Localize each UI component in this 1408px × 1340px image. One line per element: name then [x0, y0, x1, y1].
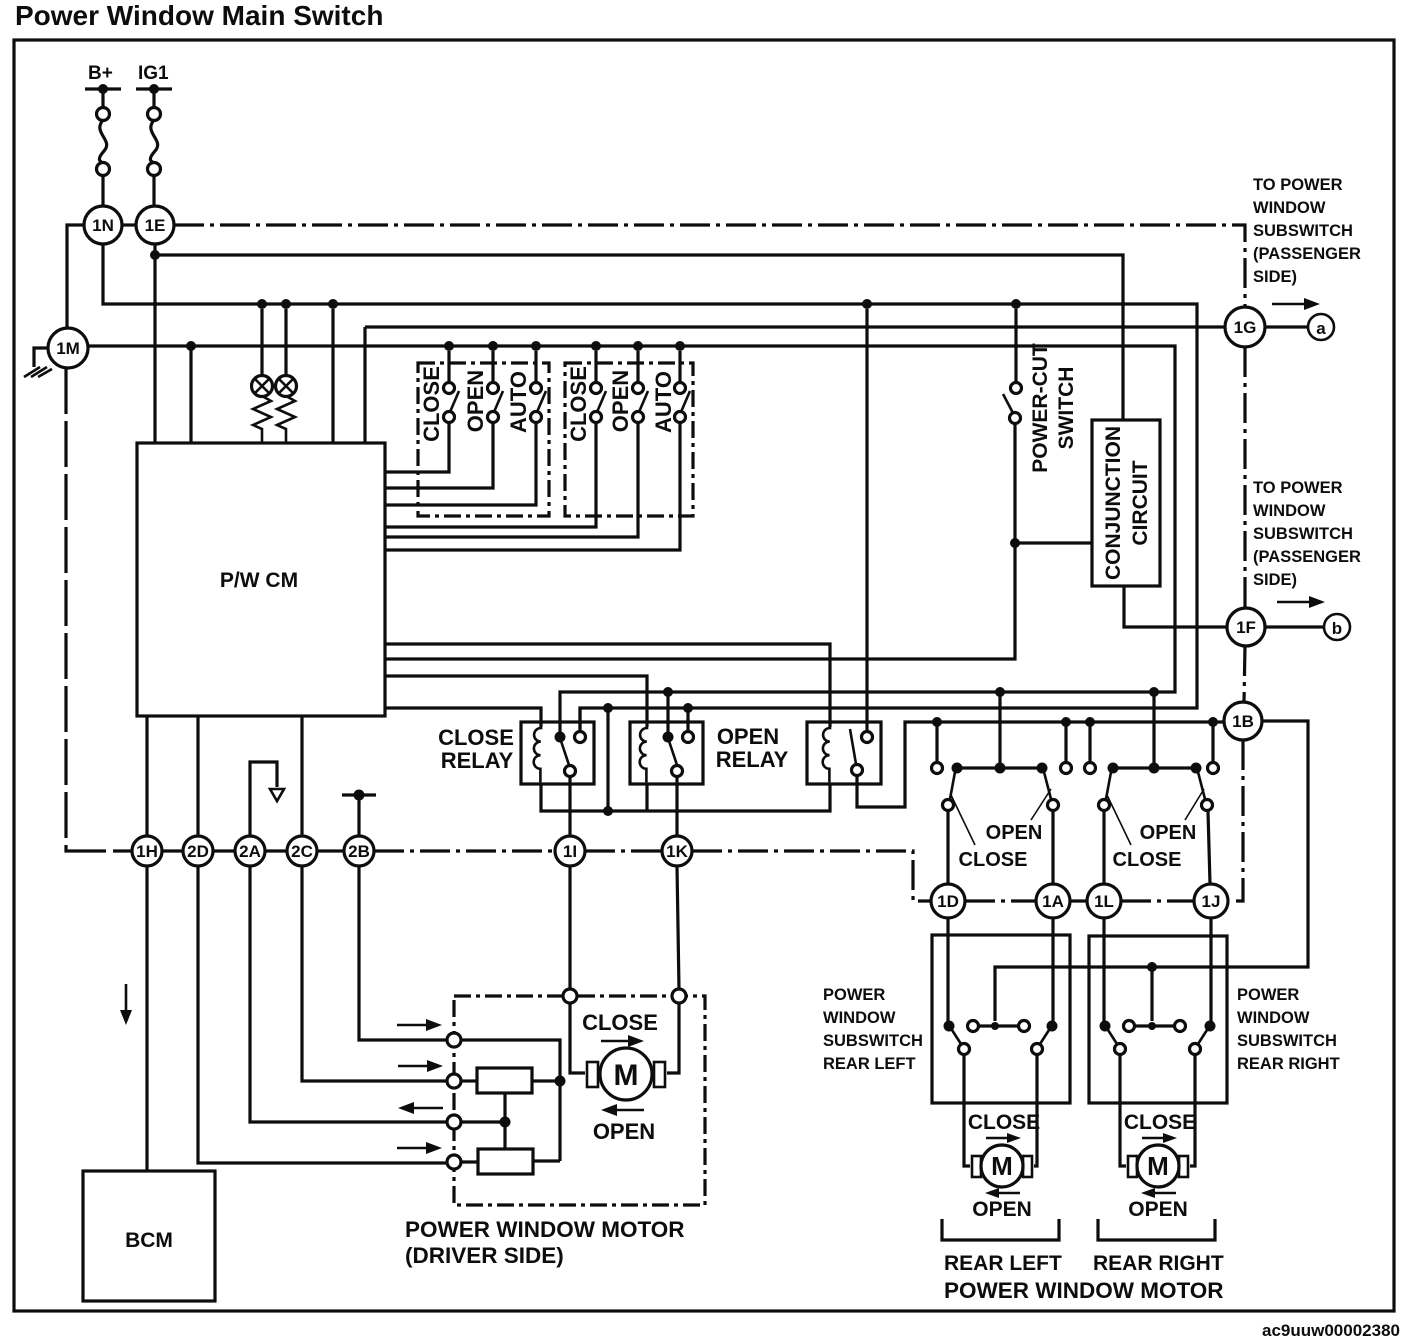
svg-text:1F: 1F [1236, 618, 1256, 637]
arrow down beside 1H wire [120, 984, 132, 1025]
lamp L2 [276, 309, 297, 397]
label to power window subswitch (top) [1253, 176, 1361, 286]
svg-text:OPEN: OPEN [1128, 1198, 1188, 1221]
close relay common contact [555, 732, 566, 743]
wire power-cut relay output to 1B rail [857, 722, 1224, 807]
node dot tap [500, 1117, 511, 1128]
svg-text:SUBSWITCH: SUBSWITCH [1253, 222, 1353, 240]
wire close relay to 1I [568, 777, 571, 836]
svg-text:IG1: IG1 [138, 63, 169, 84]
svg-text:B+: B+ [88, 63, 113, 84]
node dots on power rail [257, 299, 267, 309]
wire 1I to 1K dash [585, 849, 662, 852]
motor M1 brackets [587, 1062, 598, 1087]
wire 1B right to rear feed [995, 721, 1308, 1021]
wire 1G to a [1265, 325, 1308, 328]
power-cut relay coil [823, 722, 830, 782]
close relay coil [534, 722, 541, 782]
wire 1B to 1J dash [1230, 740, 1243, 901]
rear right subswitch contacts [1100, 1021, 1216, 1055]
svg-text:SUBSWITCH: SUBSWITCH [823, 1032, 923, 1050]
power-cut relay box [807, 722, 881, 784]
wire NO contact feed [686, 708, 689, 731]
wire P/W CM to 2D [196, 716, 199, 836]
arrow above 2A [250, 762, 284, 836]
open relay coil [640, 722, 647, 782]
arrow close (rear left) [986, 1133, 1021, 1143]
svg-text:SIDE): SIDE) [1253, 268, 1297, 286]
arrow row2 [398, 1060, 443, 1072]
svg-text:AUTO: AUTO [651, 371, 676, 433]
connector 1K [662, 836, 692, 866]
wire row1 internal [461, 1040, 560, 1161]
close relay box [521, 722, 594, 784]
power-cut switch [1003, 309, 1078, 543]
power-cut relay lever [850, 729, 856, 764]
driver motor box [454, 996, 705, 1205]
svg-text:POWER WINDOW MOTOR: POWER WINDOW MOTOR [944, 1278, 1224, 1303]
svg-text:RELAY: RELAY [441, 748, 514, 773]
open relay output circle [672, 766, 683, 777]
wire 1D to 1A dash [965, 899, 1036, 902]
svg-text:2C: 2C [291, 842, 313, 861]
svg-text:SIDE): SIDE) [1253, 571, 1297, 589]
resistor R1 [253, 396, 271, 443]
connector 2C [287, 836, 317, 866]
svg-text:POWER: POWER [823, 986, 885, 1004]
wire 1K to motor box [677, 866, 679, 989]
svg-text:WINDOW: WINDOW [1253, 199, 1326, 217]
rear-left window switch (main) [932, 692, 1072, 884]
svg-text:CIRCUIT: CIRCUIT [1129, 460, 1152, 545]
svg-text:OPEN: OPEN [986, 822, 1043, 844]
wire 1H to BCM [145, 866, 148, 1171]
svg-text:ac9uuw00002380: ac9uuw00002380 [1262, 1321, 1400, 1340]
fuse F1 (B+) [97, 108, 110, 207]
bracket rear right [1098, 1219, 1215, 1240]
svg-text:1B: 1B [1232, 712, 1254, 731]
svg-text:1N: 1N [92, 216, 114, 235]
pin circle row3 [447, 1115, 461, 1129]
relay coil bus [541, 784, 830, 811]
svg-text:CLOSE: CLOSE [566, 366, 591, 442]
svg-text:POWER: POWER [1237, 986, 1299, 1004]
wire 1N power rail [103, 244, 1197, 731]
wire row4 internal [461, 1160, 478, 1163]
label open relay [716, 724, 789, 772]
svg-text:CLOSE: CLOSE [959, 849, 1028, 871]
wire 1A-1L link [1070, 899, 1087, 902]
wire R4 to chain [533, 1159, 560, 1162]
svg-text:2B: 2B [348, 842, 370, 861]
label close relay [438, 725, 514, 773]
connector 1A [1036, 884, 1070, 918]
svg-text:CLOSE: CLOSE [968, 1111, 1040, 1134]
svg-text:OPEN: OPEN [1140, 822, 1197, 844]
wire open coil to bus [645, 784, 648, 811]
wire 1A into subswitch [1051, 918, 1054, 1022]
svg-text:WINDOW: WINDOW [1237, 1009, 1310, 1027]
resistor R2 [277, 396, 295, 443]
switch OPEN (driver bank 1) [385, 351, 503, 488]
wire rear left motor left [964, 1055, 970, 1166]
wire tap chain [503, 1093, 506, 1149]
node a [1308, 314, 1334, 340]
svg-text:OPEN: OPEN [463, 370, 488, 432]
svg-text:b: b [1332, 619, 1342, 638]
power feed above 2B [342, 790, 376, 837]
wire riser rear right [1150, 967, 1153, 1021]
svg-text:OPEN: OPEN [608, 370, 633, 432]
svg-text:OPEN: OPEN [972, 1198, 1032, 1221]
P/W CM box [137, 443, 385, 716]
connector 1M [48, 328, 88, 368]
svg-text:(PASSENGER: (PASSENGER [1253, 548, 1361, 566]
arrow row4 [397, 1142, 442, 1154]
wire 2B to motor row1 [359, 866, 447, 1040]
svg-text:SWITCH: SWITCH [1055, 367, 1078, 450]
node dot on bus [603, 806, 613, 816]
wire rail to conjunction circuit [155, 255, 1123, 420]
svg-text:POWER-CUT: POWER-CUT [1029, 343, 1052, 473]
svg-text:Power Window Main Switch: Power Window Main Switch [15, 0, 383, 31]
wire NO contact feed [578, 708, 581, 731]
svg-text:1L: 1L [1094, 892, 1114, 911]
wire 1D into subswitch [946, 918, 949, 1022]
wire 1J into subswitch [1209, 918, 1212, 1022]
svg-text:REAR LEFT: REAR LEFT [823, 1055, 916, 1073]
wire 1G to 1F dash [1243, 347, 1246, 608]
wire 2C to motor row2 [302, 866, 447, 1081]
BCM box [83, 1171, 215, 1301]
wire 1E down [153, 244, 156, 443]
rear left subswitch contacts [944, 1021, 1058, 1055]
close relay output circle [565, 766, 576, 777]
wire rail to 1G [365, 325, 1225, 328]
node B+ [85, 63, 121, 108]
wire 1F to 1B dash [1244, 646, 1245, 702]
wire 2A to motor row3 [250, 866, 447, 1122]
pin circle row1 [447, 1033, 461, 1047]
wire 1L to 1J dash [1121, 899, 1194, 902]
connector 2D [183, 836, 213, 866]
open relay common contact [663, 732, 674, 743]
arrow open (rear right) [1141, 1188, 1176, 1198]
svg-text:1D: 1D [937, 892, 959, 911]
connector 1N [84, 206, 122, 244]
switch bank box 2 [565, 363, 693, 516]
wire 1M to ground [34, 348, 48, 367]
pin circle top2 [672, 989, 686, 1003]
arrow row3 [398, 1102, 443, 1114]
switch CLOSE (bank 2) [385, 351, 606, 527]
arrow close (rear right) [1142, 1133, 1177, 1143]
open relay box [630, 722, 703, 784]
svg-text:OPEN: OPEN [593, 1119, 655, 1144]
connector 1F [1227, 608, 1265, 646]
svg-text:(PASSENGER: (PASSENGER [1253, 245, 1361, 263]
pin circle row2 [447, 1074, 461, 1088]
svg-text:CLOSE: CLOSE [438, 725, 514, 750]
wire P/W CM to 1H [145, 716, 148, 836]
svg-text:POWER WINDOW MOTOR: POWER WINDOW MOTOR [405, 1217, 685, 1242]
wire from rail down to P/W CM [363, 327, 366, 443]
svg-text:a: a [1316, 319, 1326, 338]
connector 1E [136, 206, 174, 244]
wire 1K to 1D dash [692, 851, 931, 901]
wire 1N-1E link [122, 223, 136, 226]
svg-text:BCM: BCM [125, 1229, 173, 1252]
wire 1M down to 1H [66, 368, 131, 851]
wire 1N left to 1M [67, 225, 84, 328]
motor M2 (rear left) [981, 1145, 1023, 1187]
svg-text:CLOSE: CLOSE [419, 366, 444, 442]
wire 1I to motor box [568, 866, 571, 989]
connector 1J [1194, 884, 1228, 918]
wire R3 to chain [532, 1079, 560, 1082]
svg-text:CONJUNCTION: CONJUNCTION [1102, 426, 1125, 580]
switch AUTO (bank 2) [385, 351, 690, 550]
wire to motor right [667, 1003, 679, 1073]
arrow close (driver motor) [601, 1035, 644, 1047]
svg-text:WINDOW: WINDOW [1253, 502, 1326, 520]
switch OPEN (bank 2) [385, 351, 648, 537]
svg-text:CLOSE: CLOSE [1113, 849, 1182, 871]
wire power-cut relay NO feed [865, 309, 868, 731]
svg-text:CLOSE: CLOSE [582, 1010, 658, 1035]
wire row2 internal [461, 1079, 477, 1082]
connector 1B [1224, 702, 1262, 740]
wire P/W CM to 2C [300, 716, 303, 836]
svg-text:REAR LEFT: REAR LEFT [944, 1252, 1062, 1275]
power-cut relay output circle [852, 765, 863, 776]
arrow to passenger subswitch (top) [1272, 298, 1320, 310]
wire open relay to 1K [675, 777, 678, 836]
svg-text:SUBSWITCH: SUBSWITCH [1237, 1032, 1337, 1050]
node junction below 1E [150, 250, 160, 260]
node IG1 [136, 63, 172, 108]
svg-text:1M: 1M [56, 339, 80, 358]
open relay NO contact [683, 732, 694, 743]
label power window motor driver side [405, 1217, 685, 1268]
wire rail dot to P/W CM [331, 309, 334, 443]
svg-text:REAR RIGHT: REAR RIGHT [1093, 1252, 1224, 1275]
power-cut relay NO contact [862, 732, 873, 743]
wire row3 internal [461, 1120, 505, 1123]
svg-text:M: M [991, 1151, 1013, 1181]
wire 1F to b [1265, 625, 1324, 628]
svg-text:M: M [614, 1059, 639, 1092]
rear-right window switch (main) [1085, 692, 1219, 884]
wire rear right motor right [1190, 1055, 1195, 1166]
arrow to passenger subswitch (lower) [1277, 596, 1325, 608]
svg-text:P/W CM: P/W CM [220, 569, 298, 592]
connector 2A [235, 836, 265, 866]
svg-text:1J: 1J [1202, 892, 1221, 911]
node dot R3 right [555, 1076, 566, 1087]
svg-text:1H: 1H [136, 842, 158, 861]
arrow row1 [397, 1019, 442, 1031]
wire P/W CM to close relay coil [385, 708, 541, 727]
node dots on 1B rail [932, 717, 942, 727]
svg-text:WINDOW: WINDOW [823, 1009, 896, 1027]
pin circle row4 [447, 1155, 461, 1169]
switch bank box 1 [418, 363, 549, 516]
svg-text:1A: 1A [1042, 892, 1064, 911]
label power window subswitch rear right [1237, 986, 1340, 1073]
open relay lever [669, 741, 677, 765]
arrow open (driver motor) [601, 1104, 644, 1116]
node dot on rear feed [1147, 962, 1157, 972]
wire 1E dash-dot rail to 1G [174, 225, 1245, 306]
svg-text:RELAY: RELAY [716, 747, 789, 772]
svg-text:M: M [1147, 1151, 1169, 1181]
node dots on ground rail [186, 341, 196, 351]
wire 2D to motor row4 [198, 866, 447, 1163]
svg-text:REAR RIGHT: REAR RIGHT [1237, 1055, 1340, 1073]
motor M3 brackets [1128, 1156, 1137, 1177]
svg-text:OPEN: OPEN [717, 724, 779, 749]
svg-text:1K: 1K [666, 842, 688, 861]
lamp L1 [252, 309, 273, 397]
svg-text:TO POWER: TO POWER [1253, 176, 1343, 194]
svg-text:CLOSE: CLOSE [1124, 1111, 1196, 1134]
close relay NO contact [575, 732, 586, 743]
wire contact chain [606, 708, 609, 811]
rear right subswitch box [1089, 936, 1227, 1103]
wire 2B to 1I dash [374, 849, 555, 852]
motor M2 brackets [972, 1156, 981, 1177]
close relay lever [561, 741, 569, 765]
motor M1 (driver) [600, 1048, 652, 1100]
connector 1I [555, 836, 585, 866]
wire P/W CM to power-cut relay coil [385, 644, 830, 727]
wire row links [162, 849, 183, 852]
svg-text:1I: 1I [563, 842, 577, 861]
svg-text:(DRIVER SIDE): (DRIVER SIDE) [405, 1243, 564, 1268]
pin circle top1 [563, 989, 577, 1003]
fuse F2 (IG1) [148, 108, 161, 207]
wire to motor left [570, 1003, 585, 1073]
resistor R4 [478, 1149, 533, 1174]
wire rear left motor right [1034, 1055, 1037, 1166]
rear left subswitch box [932, 935, 1070, 1103]
svg-text:1E: 1E [145, 216, 166, 235]
connector 1G [1225, 307, 1265, 347]
arrow open (rear left) [985, 1188, 1020, 1198]
label power window subswitch rear left [823, 986, 923, 1073]
conjunction circuit box [1092, 420, 1160, 586]
node junction power-cut out [1010, 538, 1020, 548]
svg-text:SUBSWITCH: SUBSWITCH [1253, 525, 1353, 543]
wire 1M ground rail [88, 346, 1175, 732]
connector 1L [1087, 884, 1121, 918]
wire common feed from ground rail [666, 692, 669, 732]
connector 1H [132, 836, 162, 866]
connector 1D [931, 884, 965, 918]
wire from ground rail dot down to P/W CM [189, 346, 192, 443]
svg-text:1G: 1G [1234, 318, 1257, 337]
wire conjunction out to 1F [1124, 586, 1227, 627]
svg-text:TO POWER: TO POWER [1253, 479, 1343, 497]
label to power window subswitch (lower) [1253, 479, 1361, 589]
svg-text:2D: 2D [187, 842, 209, 861]
wire P/W CM to power-cut node [385, 543, 1092, 659]
resistor R3 [477, 1068, 532, 1093]
svg-text:AUTO: AUTO [506, 371, 531, 433]
svg-text:2A: 2A [239, 842, 261, 861]
switch CLOSE (driver bank 1) [385, 351, 459, 472]
bracket rear left [942, 1219, 1059, 1240]
motor M3 (rear right) [1137, 1145, 1179, 1187]
connector 2B [344, 836, 374, 866]
wire rear right motor left [1120, 1055, 1126, 1166]
switch AUTO (driver bank 1) [385, 351, 546, 505]
wire 1L into subswitch [1102, 918, 1105, 1022]
node b [1324, 614, 1350, 640]
ground [24, 367, 52, 377]
wire P/W CM to open relay coil [385, 676, 647, 727]
